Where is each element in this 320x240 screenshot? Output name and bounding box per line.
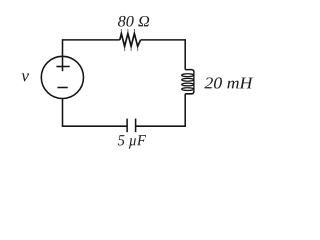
wire bottom-right segment (136, 125, 186, 127)
label v (source voltage) (22, 73, 29, 81)
label 20 mH (204, 77, 253, 88)
wire left lower (corner up to source) (62, 99, 64, 127)
inductor L loop 2 (182, 78, 194, 81)
resistor R 80Ω zigzag (120, 34, 141, 47)
voltage source circle (41, 56, 83, 98)
inductor L loop 1 (182, 74, 194, 77)
wire right upper (corner to inductor) (184, 39, 186, 69)
wire top-right segment (141, 39, 186, 41)
label 80 Ω (118, 16, 149, 27)
voltage source plus sign bar (56, 66, 69, 68)
wire right lower (inductor to corner) (184, 94, 186, 126)
wire bottom-left segment (63, 125, 128, 127)
inductor L bottom lead bar (185, 91, 194, 94)
voltage source minus sign bar (57, 87, 67, 89)
wire left upper (top corner into source, + lead) (62, 39, 64, 71)
capacitor C right plate (135, 119, 137, 133)
capacitor C left plate (126, 119, 128, 133)
wire top-left segment (63, 39, 120, 41)
resistor R vertex miter spikes (121, 29, 137, 51)
inductor L top lead bar (185, 70, 194, 73)
inductor L loop 3 (182, 83, 194, 86)
inductor L loop 4 (182, 88, 194, 91)
label 5 µF (118, 135, 146, 148)
inductor L right-side connector (193, 72, 195, 92)
